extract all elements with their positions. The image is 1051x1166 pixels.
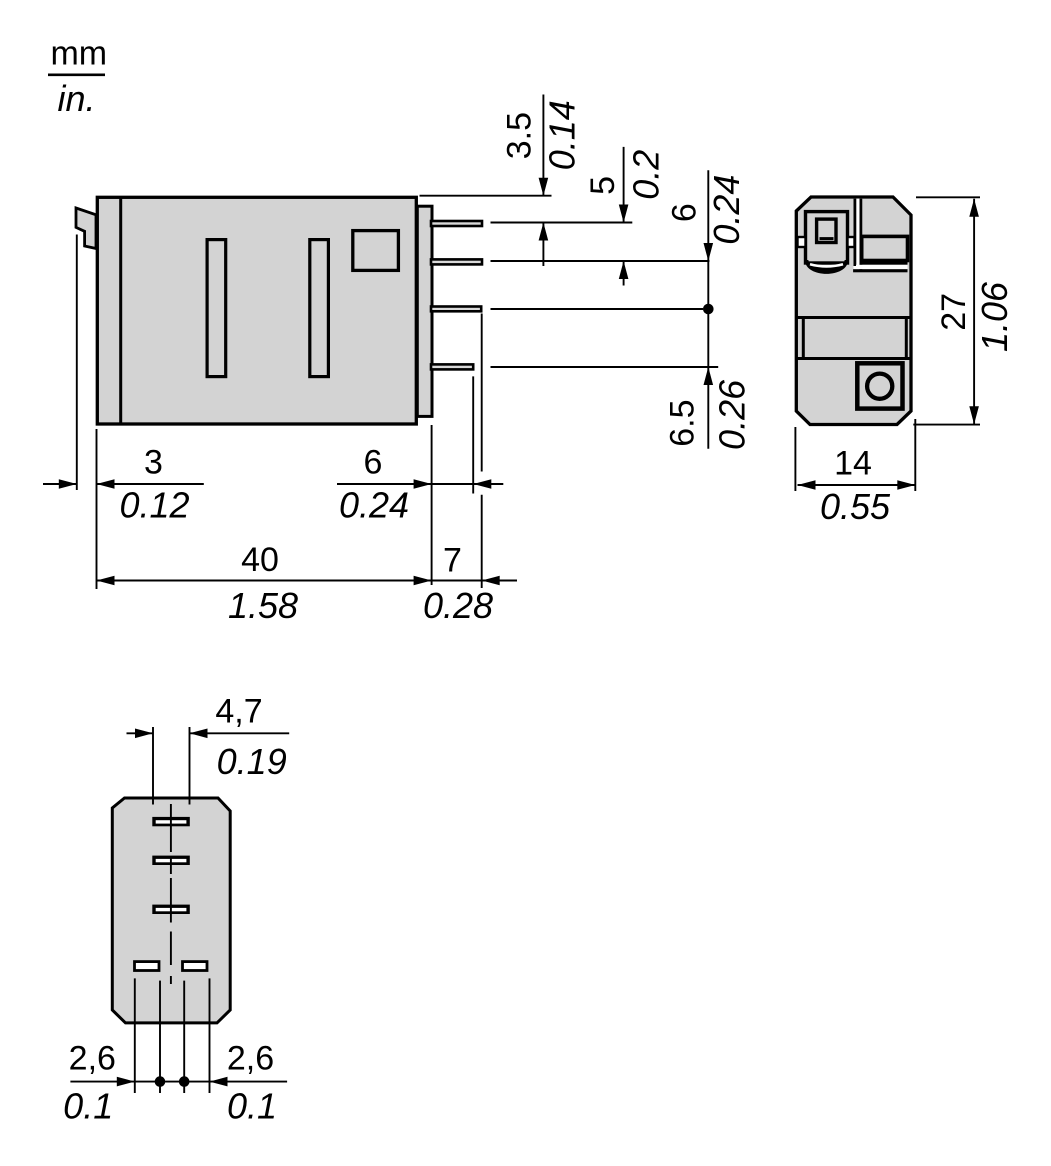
svg-text:4,7: 4,7 <box>215 693 262 731</box>
pin 3 <box>431 307 481 312</box>
svg-text:0.14: 0.14 <box>542 100 583 170</box>
pin 2 <box>431 259 482 264</box>
extension line pin row outer-left <box>134 978 136 1093</box>
extension line body left <box>96 429 98 589</box>
side view band lower line <box>796 357 911 360</box>
extension line body top <box>420 195 552 197</box>
extension line pin 3 <box>491 308 704 310</box>
extension line pin3 end upper <box>481 314 483 472</box>
extension line pin 1 <box>491 222 633 224</box>
side view octagon body <box>796 197 911 425</box>
svg-text:6: 6 <box>665 203 703 222</box>
bottom view octagon body <box>112 798 230 1023</box>
svg-text:40: 40 <box>241 541 279 579</box>
side view small window inner line <box>820 237 834 240</box>
svg-text:0.24: 0.24 <box>706 175 747 245</box>
dimension 27/1.06 <box>935 199 1015 424</box>
extension line pin 2 <box>491 260 710 262</box>
extension line pin row inner-left <box>159 981 161 1093</box>
node dot on pin 3 line <box>703 304 714 315</box>
body square marking <box>353 231 399 271</box>
side view circle <box>867 374 892 399</box>
dimension 7/0.28 <box>423 542 517 627</box>
svg-text:0.19: 0.19 <box>217 741 287 782</box>
svg-text:2,6: 2,6 <box>69 1040 116 1078</box>
svg-text:6: 6 <box>364 444 383 482</box>
relay body side view main rectangle <box>97 197 416 424</box>
bottom view center line <box>170 804 172 984</box>
svg-text:3.5: 3.5 <box>501 112 539 159</box>
dimension 2,6/0.1 left and right <box>63 1040 287 1127</box>
body slot 1 <box>207 240 226 377</box>
extension line 4,7 right <box>189 727 191 805</box>
svg-text:0.1: 0.1 <box>63 1086 113 1127</box>
extension line side view top <box>916 196 980 198</box>
svg-text:0.26: 0.26 <box>711 379 752 450</box>
dimension 3.5/0.14 <box>501 95 583 267</box>
extension line side view bottom-left <box>794 427 796 491</box>
node dot left pin <box>155 1076 166 1087</box>
extension line pin 4 <box>491 366 719 368</box>
side view right nub <box>848 237 855 247</box>
side view ledge under right window <box>853 261 907 272</box>
extension line pin row inner-right <box>183 981 185 1093</box>
node dot right pin <box>179 1076 190 1087</box>
pin 1 <box>431 221 482 226</box>
extension line pin3 end lower <box>481 495 483 588</box>
side view small window <box>817 219 836 242</box>
dimension chain 6/0.24 and 6.5/0.26 <box>664 170 753 450</box>
body rear strip <box>417 206 432 416</box>
side view band upper line <box>796 316 911 319</box>
bottom view slot 1 <box>152 817 190 826</box>
dimension 3/0.12 <box>43 444 204 526</box>
side view center channel <box>854 199 863 271</box>
dimension 4,7/0.19 <box>127 693 290 783</box>
bottom view slot 3 <box>152 905 190 914</box>
body slot 2 <box>310 240 329 377</box>
svg-text:27: 27 <box>935 293 973 331</box>
dimension 40/1.58 <box>97 541 432 626</box>
svg-text:0.55: 0.55 <box>820 486 891 527</box>
svg-text:mm: mm <box>50 35 107 73</box>
svg-text:3: 3 <box>144 444 163 482</box>
extension line 4,7 left <box>152 727 154 805</box>
bottom view lower-right slot <box>183 962 208 971</box>
side view bottom square <box>857 363 902 408</box>
svg-text:0.28: 0.28 <box>423 585 493 626</box>
pin 4 <box>431 364 473 369</box>
svg-text:14: 14 <box>834 445 872 483</box>
dimension 5/0.2 <box>584 147 667 286</box>
svg-text:6.5: 6.5 <box>664 399 702 446</box>
svg-text:2,6: 2,6 <box>227 1040 274 1078</box>
side view band left tick <box>802 319 805 357</box>
extension line side view bottom-right <box>914 419 916 491</box>
body front bezel line <box>119 197 122 424</box>
latch clip on relay left side <box>76 208 96 249</box>
side view clip block <box>806 212 848 263</box>
svg-text:0.1: 0.1 <box>227 1086 277 1127</box>
svg-text:0.12: 0.12 <box>119 485 189 526</box>
dimension 6/0.24 bottom row <box>337 444 503 526</box>
extension line latch left <box>76 235 78 491</box>
bottom view lower-left slot <box>135 962 160 971</box>
bottom view slot 2 <box>152 856 190 865</box>
extension line body rear <box>431 425 433 585</box>
extension line pin4 end <box>472 376 474 493</box>
svg-text:5: 5 <box>584 176 622 195</box>
svg-text:0.2: 0.2 <box>626 150 667 200</box>
svg-text:0.24: 0.24 <box>339 485 409 526</box>
extension line side view bottom <box>913 424 980 426</box>
dimension 14/0.55 <box>798 445 916 528</box>
side view left nub <box>798 237 806 247</box>
svg-text:7: 7 <box>443 542 462 580</box>
side view clip block arc bottom <box>805 260 848 274</box>
side view band right tick <box>905 319 908 357</box>
svg-text:1.06: 1.06 <box>974 281 1015 352</box>
side view right window <box>862 236 908 260</box>
svg-text:in.: in. <box>57 78 95 119</box>
units label mm/in <box>48 35 107 120</box>
svg-text:1.58: 1.58 <box>228 585 298 626</box>
extension line pin row outer-right <box>209 978 211 1093</box>
